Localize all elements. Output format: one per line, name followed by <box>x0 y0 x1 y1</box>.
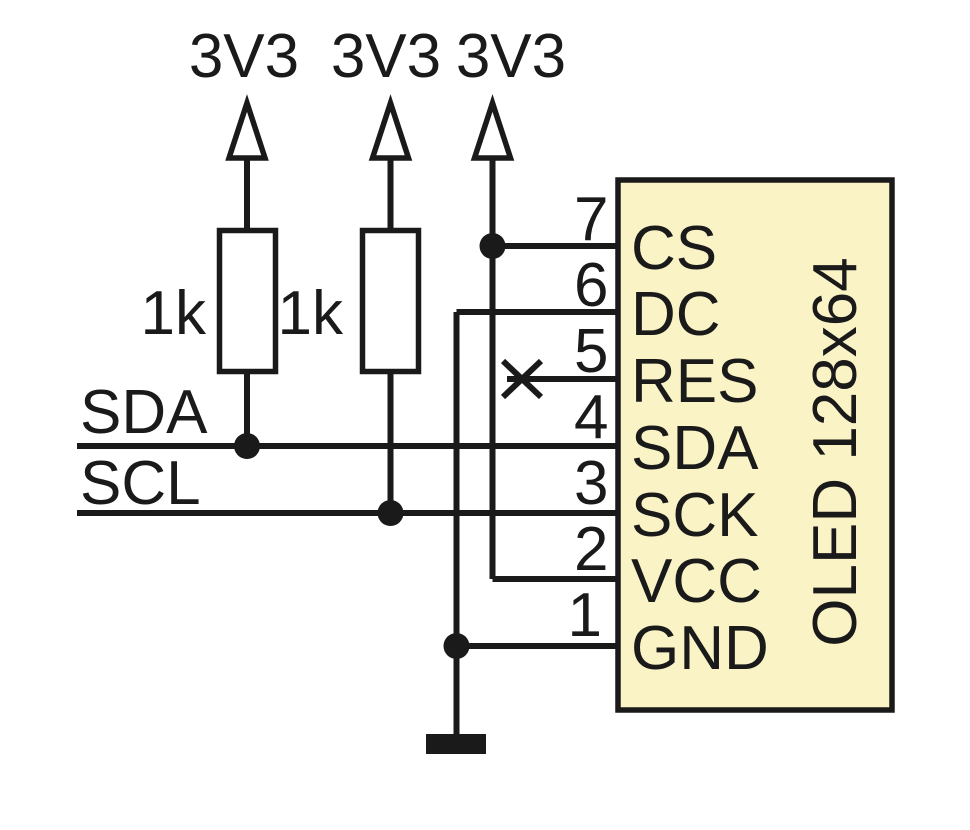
wire: SCL bus to pin 3 <box>77 510 618 516</box>
svg-text:2: 2 <box>574 515 608 584</box>
svg-text:6: 6 <box>574 251 608 320</box>
resistor R1 body <box>220 231 276 372</box>
wire: 3V3 rail C vertical to VCC <box>490 158 496 579</box>
svg-text:3V3: 3V3 <box>189 22 299 91</box>
svg-text:DC: DC <box>631 280 721 349</box>
wire: DC / GND vertical <box>454 312 460 646</box>
power arrow 3V3 (rail A) <box>229 103 265 158</box>
svg-text:SDA: SDA <box>80 378 208 447</box>
power arrow 3V3 (rail C) <box>475 103 511 158</box>
wire: 3V3 rail A stem <box>244 158 250 229</box>
wire: CS pin 7 <box>493 243 619 249</box>
svg-text:3: 3 <box>574 449 608 518</box>
wire: R1 to SDA bus <box>244 371 250 446</box>
wire: SDA bus to pin 4 <box>77 443 618 449</box>
wire: 3V3 rail B stem <box>388 158 394 229</box>
svg-text:GND: GND <box>631 614 769 683</box>
wire: GND node to ground symbol <box>454 646 460 737</box>
svg-text:RES: RES <box>631 347 758 416</box>
svg-text:5: 5 <box>574 317 608 386</box>
wire: VCC pin 2 <box>493 576 619 582</box>
svg-text:1k: 1k <box>141 279 207 348</box>
IC U1: OLED 128x64 module body <box>618 180 892 710</box>
wire: RES pin 5 <box>507 376 618 382</box>
wire: DC pin 6 horizontal <box>457 309 619 315</box>
svg-text:1k: 1k <box>278 279 344 348</box>
ground symbol <box>426 734 486 754</box>
wire: R2 to SCL bus <box>388 371 394 513</box>
svg-text:SCK: SCK <box>631 481 758 550</box>
junction: GND node <box>444 633 470 659</box>
junction: R2 / SCL bus <box>378 500 404 526</box>
svg-text:OLED 128x64: OLED 128x64 <box>801 257 870 646</box>
svg-text:3V3: 3V3 <box>331 22 441 91</box>
svg-text:4: 4 <box>574 383 608 452</box>
svg-text:CS: CS <box>631 214 717 283</box>
svg-text:7: 7 <box>574 185 608 254</box>
svg-text:1: 1 <box>568 581 602 650</box>
no-connect X on RES pin 5 <box>503 361 541 397</box>
power arrow 3V3 (rail B) <box>373 103 409 158</box>
junction: rail C / CS pin wire <box>480 233 506 259</box>
resistor R2 body <box>363 231 419 372</box>
wire: GND pin 1 <box>457 643 619 649</box>
junction: R1 / SDA bus <box>234 433 260 459</box>
svg-text:SDA: SDA <box>631 414 759 483</box>
svg-text:VCC: VCC <box>631 547 762 616</box>
svg-text:3V3: 3V3 <box>456 22 566 91</box>
svg-text:SCL: SCL <box>80 449 201 518</box>
